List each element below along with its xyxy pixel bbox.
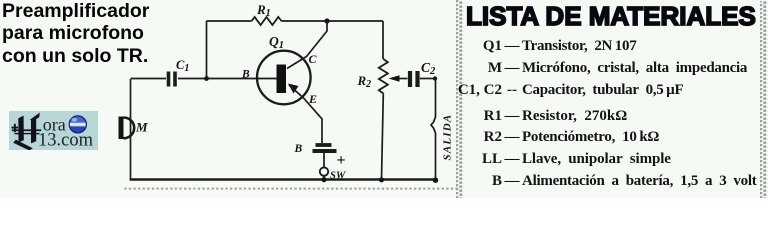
- potentiometer R2: [379, 59, 408, 180]
- svg-text:R2: R2: [357, 73, 372, 90]
- list row R1: [455, 108, 627, 125]
- svg-text:B: B: [294, 143, 303, 155]
- svg-text:C2: C2: [421, 60, 436, 77]
- label E emitter: [308, 92, 317, 106]
- capacitor C1: [169, 72, 176, 87]
- transistor Q1: [257, 51, 311, 105]
- label + polarity: [337, 152, 346, 169]
- label SALIDA: [442, 114, 454, 161]
- list row LL: [455, 151, 671, 168]
- logo blackletter H: [11, 113, 41, 151]
- label B base: [241, 69, 250, 81]
- svg-text:C1: C1: [176, 58, 189, 74]
- label R2: [357, 73, 372, 90]
- wire salida output line: [431, 79, 436, 181]
- switch SW terminal: [320, 167, 328, 179]
- node junction top rail: [324, 18, 329, 23]
- svg-text:R1: R1: [256, 2, 271, 19]
- label M: [135, 120, 148, 135]
- label B battery: [294, 143, 303, 155]
- label Q1: [269, 34, 284, 51]
- svg-text:+: +: [337, 152, 346, 169]
- wire top rail with resistor R1: [207, 17, 384, 25]
- wire right vertical to R2: [382, 21, 384, 59]
- label C collector: [309, 52, 318, 66]
- wire emitter lead: [289, 85, 322, 143]
- svg-text:SALIDA: SALIDA: [442, 114, 454, 161]
- list row Q1: [455, 38, 636, 55]
- label C2: [421, 60, 436, 77]
- node junction R2-rail: [379, 177, 384, 182]
- schematic title caption: [2, 0, 149, 67]
- list row B: [455, 173, 756, 190]
- wire bottom rail: [130, 178, 436, 180]
- wire top-left vertical: [206, 21, 208, 79]
- label R1: [256, 2, 271, 19]
- list row C1,C2: [455, 82, 683, 99]
- capacitor C2: [410, 71, 435, 87]
- list row R2: [455, 129, 659, 146]
- wire collector lead: [287, 21, 327, 69]
- svg-text:E: E: [308, 92, 317, 106]
- label C1: [176, 58, 189, 74]
- list row M: [455, 60, 747, 77]
- node junction at base wire: [204, 76, 209, 81]
- svg-text:B: B: [241, 69, 250, 81]
- Hora13.com logo: [9, 111, 98, 150]
- svg-text:C: C: [309, 52, 318, 66]
- logo globe: [69, 116, 86, 133]
- battery B: [313, 145, 337, 167]
- svg-text:Q1: Q1: [269, 34, 284, 51]
- node junction switch-rail: [321, 177, 326, 182]
- wire base input segment: [131, 78, 277, 80]
- microphone M: [119, 117, 135, 140]
- label SW: [330, 171, 346, 182]
- wire left rail: [130, 79, 132, 180]
- node junction salida-rail: [433, 178, 438, 183]
- svg-text:M: M: [135, 120, 148, 135]
- list heading: LISTA DE MATERIALES: [466, 1, 756, 32]
- node output junction: [433, 76, 437, 80]
